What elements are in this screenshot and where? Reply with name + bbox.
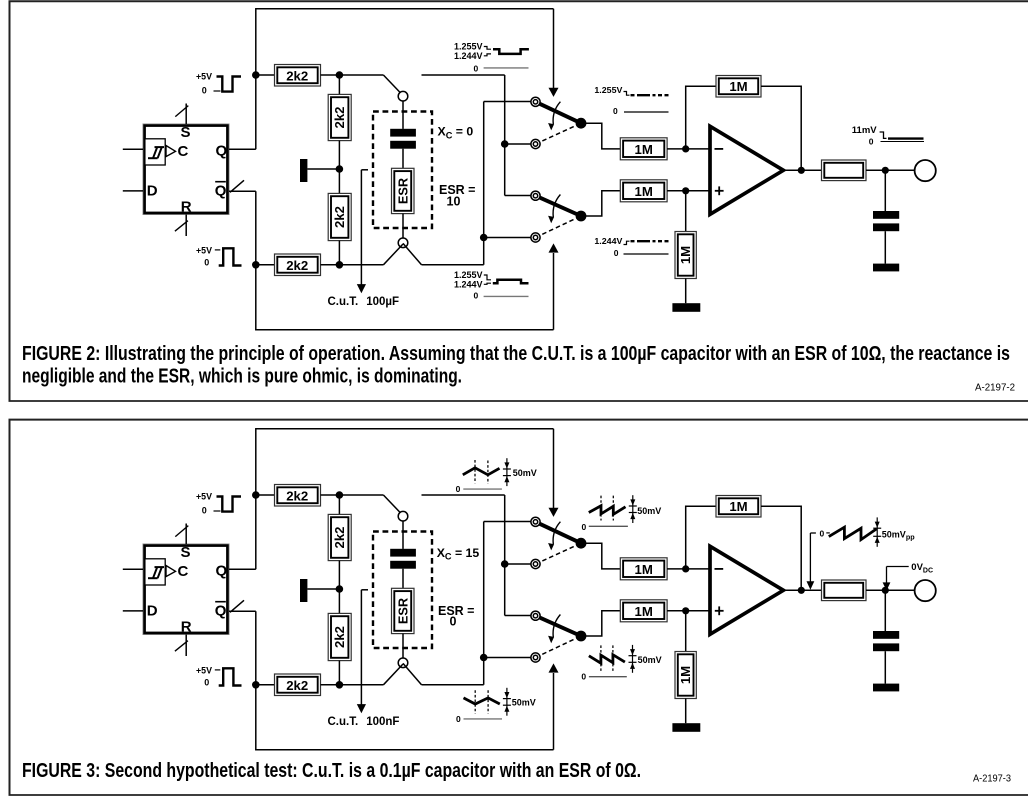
svg-text:R: R — [181, 619, 192, 636]
resistor RG2 1M non-inverting input fig3 — [620, 600, 667, 622]
svg-text:1M: 1M — [635, 562, 653, 577]
switch SW1 motion arc fig2 — [553, 102, 560, 125]
op-amp U2 minus sign fig3 — [715, 568, 724, 570]
wire RG2 to non-inverting node fig3 — [667, 610, 710, 612]
terminal circle bottom of C.u.T. fig2 — [398, 238, 408, 248]
svg-text:1.244V: 1.244V — [454, 279, 483, 289]
switch drive arrow up fig3 — [553, 673, 555, 750]
waveform sawtooth non-inverting fig3 — [589, 655, 625, 664]
wire R1 to node A fig3 — [321, 494, 340, 496]
node M midpoint fig2 — [336, 165, 344, 173]
wire Xc to ESR fig3 — [402, 569, 404, 589]
wire top rail to switches fig3 — [422, 494, 505, 496]
switch SW2 alternate throw dashed fig3 — [536, 636, 582, 658]
C.u.T. leader arrow fig3 — [360, 590, 362, 705]
svg-text:2k2: 2k2 — [286, 68, 308, 83]
reference bar electrode fig2 — [300, 159, 307, 182]
label 0VDC leader fig3 — [886, 567, 888, 584]
wire node M to R3 fig3 — [338, 589, 340, 613]
svg-text:R: R — [181, 199, 192, 216]
svg-text:FIGURE 3: Second hypothetical: FIGURE 3: Second hypothetical test: C.u.… — [22, 760, 641, 782]
resistor R1 2k2 horizontal top fig2 — [275, 65, 321, 87]
flip-flop U1 fig2 (D flip-flop box) — [143, 124, 229, 215]
resistor ESR box fig3 — [392, 588, 415, 633]
wire tap to output capacitor fig2 — [884, 170, 886, 211]
wire rail to R4 fig3 — [256, 684, 275, 686]
wire vertical drive A fig3 — [504, 495, 506, 616]
svg-text:1M: 1M — [678, 246, 693, 264]
svg-text:2k2: 2k2 — [332, 206, 347, 228]
svg-text:50mV: 50mV — [513, 468, 537, 478]
resistor R3 2k2 vertical lower fig3 — [328, 613, 351, 660]
svg-text:0: 0 — [474, 63, 479, 73]
svg-text:1M: 1M — [729, 499, 747, 514]
node A top divider fig2 — [336, 71, 344, 79]
svg-text:0: 0 — [581, 671, 586, 681]
wire node A to R2 fig2 — [338, 75, 340, 94]
svg-text:1.244V: 1.244V — [454, 51, 483, 61]
wire Q rail up fig2 — [255, 8, 257, 149]
wire RO to terminal fig2 — [866, 169, 915, 171]
waveform Qbar square pulse fig2 — [219, 248, 242, 265]
op-amp U2 minus sign fig2 — [715, 148, 724, 150]
node inverting input fig2 — [682, 145, 689, 152]
switch SW2 blade fig3 — [536, 616, 582, 636]
op-amp U2 plus sign fig3 — [715, 610, 724, 612]
wire SW2 pole to RG2 fig2 — [585, 191, 620, 216]
svg-text:11mV: 11mV — [852, 125, 877, 136]
wire drive B corner to SW1 upper contact fig3 — [484, 521, 531, 523]
resistor RG1 1M inverting input fig2 — [620, 138, 667, 160]
resistor RO output series (unlabeled) fig3 — [822, 580, 867, 601]
resistor R1 2k2 horizontal top fig3 — [275, 485, 321, 507]
wire Q output fig3 — [229, 568, 256, 570]
svg-text:FIGURE 2: Illustrating the pri: FIGURE 2: Illustrating the principle of … — [22, 343, 1010, 365]
switch SW2 upper contact fig2 — [531, 191, 540, 200]
wire bottom terminal to node B fig3 — [403, 663, 422, 684]
C.u.T. leader stub fig3 — [361, 589, 368, 591]
resistor R2 2k2 vertical upper fig2 — [328, 94, 351, 140]
wire reference bar to node M fig2 — [307, 168, 339, 170]
wire drive A corner to SW2 upper contact fig3 — [505, 615, 531, 617]
waveform Q square pulse fig3 — [217, 497, 242, 512]
switch SW2 motion arc fig3 — [553, 615, 560, 638]
node M midpoint fig3 — [336, 585, 344, 593]
wire R4 to node B fig2 — [321, 264, 340, 266]
wire feedback left leg fig2 — [686, 86, 716, 149]
switch SW2 pole fig3 — [576, 631, 587, 642]
svg-text:1M: 1M — [635, 184, 653, 199]
capacitor CO plate 2 fig2 — [873, 223, 899, 231]
op-amp U2 plus sign fig2 — [715, 190, 724, 192]
svg-text:D: D — [147, 183, 158, 200]
resistor RG2 1M non-inverting input fig2 — [620, 180, 667, 202]
wire RG1 to inverting node fig2 — [667, 148, 710, 150]
wire bottom rail to switches fig3 — [422, 684, 484, 686]
amplitude arrow inverting fig3 — [632, 495, 634, 523]
hook 1.255V bottom fig2 — [484, 275, 491, 280]
wire feedback right leg fig2 — [761, 86, 801, 170]
Qbar output slash fig3 — [230, 600, 244, 612]
wire Qbar output fig2 — [229, 190, 256, 192]
svg-text:0: 0 — [474, 290, 479, 300]
svg-text:XC = 15: XC = 15 — [437, 546, 480, 562]
switch SW1 lower contact fig3 — [531, 559, 540, 568]
node terminal tap fig2 — [882, 167, 889, 174]
svg-text:0: 0 — [202, 86, 207, 96]
dashed box C.u.T. outline fig3 — [373, 532, 432, 649]
svg-text:2k2: 2k2 — [286, 488, 308, 503]
node inverting input fig3 — [682, 565, 689, 572]
wire op-amp output fig2 — [783, 169, 821, 171]
svg-text:2k2: 2k2 — [286, 258, 308, 273]
dashed box C.u.T. outline fig2 — [373, 112, 432, 229]
U1 R pin no-connect slash fig2 — [175, 221, 188, 232]
svg-text:0: 0 — [456, 484, 461, 494]
svg-text:0: 0 — [613, 106, 618, 116]
svg-text:Q: Q — [216, 563, 228, 580]
wire Qbar rail down fig3 — [255, 611, 257, 750]
switch SW2 blade fig2 — [536, 196, 582, 216]
wire R1 to node A fig2 — [321, 74, 340, 76]
svg-text:A-2197-2: A-2197-2 — [975, 383, 1015, 394]
wire tap to output capacitor fig3 — [884, 590, 886, 631]
wire Q rail up fig3 — [255, 428, 257, 569]
svg-text:1.255V: 1.255V — [594, 85, 622, 95]
switch SW1 lower contact fig2 — [531, 139, 540, 148]
op-amp U2 triangle fig2 — [710, 126, 783, 214]
wire R3 to node B fig3 — [338, 661, 340, 685]
wire feedback right leg fig3 — [761, 506, 801, 590]
waveform cap voltage square bottom fig2 — [493, 280, 529, 283]
svg-text:0: 0 — [204, 257, 209, 267]
wire ESR to bottom terminal fig3 — [402, 634, 404, 658]
wire RO to terminal fig3 — [866, 589, 915, 591]
node output fig3 — [798, 587, 805, 594]
resistor R2 2k2 vertical upper fig3 — [328, 514, 351, 560]
switch SW1 upper contact fig3 — [531, 517, 540, 526]
node B bottom divider fig2 — [336, 261, 344, 269]
wire node A to top terminal fig2 — [339, 74, 383, 76]
resistor R4 2k2 horizontal bottom fig3 — [275, 674, 321, 696]
wire non-inverting node to RB fig2 — [685, 191, 687, 232]
U1 R pin stub (unconnected) fig3 — [185, 635, 187, 657]
node Q rail tap fig2 — [252, 71, 260, 79]
svg-text:100µF: 100µF — [366, 296, 399, 308]
wire drive A corner to SW2 upper contact fig2 — [505, 195, 531, 197]
waveform dash-dot inverting fig2 — [631, 94, 669, 96]
resistor RG1 1M inverting input fig3 — [620, 558, 667, 580]
resistor RO output series (unlabeled) fig2 — [822, 160, 867, 181]
resistor RF 1M feedback fig3 — [716, 496, 761, 518]
svg-text:2k2: 2k2 — [332, 106, 347, 128]
capacitor Xc plate 1 fig3 — [390, 549, 416, 557]
Qbar output slash fig2 — [230, 180, 244, 192]
wire vertical drive B fig2 — [483, 102, 485, 265]
terminal circle top of C.u.T. fig2 — [398, 91, 408, 101]
flip-flop U1 fig3 (D flip-flop box) — [143, 544, 229, 635]
switch drive arrow down fig2 — [553, 9, 555, 89]
wire output capacitor to ground fig3 — [884, 651, 886, 683]
terminal circle bottom of C.u.T. fig3 — [398, 658, 408, 668]
node drive B to SW2 lower contact fig3 — [480, 654, 488, 662]
U1 C input wire fig3 — [123, 568, 143, 570]
svg-text:C: C — [178, 563, 189, 580]
node drive B to SW2 lower contact fig2 — [480, 234, 488, 242]
switch SW1 alternate throw dashed fig2 — [536, 123, 582, 144]
wire reference bar to node M fig3 — [307, 588, 339, 590]
resistor R3 2k2 vertical lower fig2 — [328, 193, 351, 240]
resistor R4 2k2 horizontal bottom fig2 — [275, 254, 321, 276]
svg-text:2k2: 2k2 — [332, 626, 347, 648]
wire rail to R1 fig2 — [256, 74, 275, 76]
wire top drive run fig2 — [255, 8, 553, 10]
op-amp U2 triangle fig3 — [710, 546, 783, 634]
U1 R pin stub (unconnected) fig2 — [185, 215, 187, 237]
wire bottom rail to switches fig2 — [422, 264, 484, 266]
svg-text:0: 0 — [450, 615, 457, 629]
svg-text:+5V: +5V — [196, 245, 213, 256]
wire drive B corner to SW1 upper contact fig2 — [484, 101, 531, 103]
amplitude arrow output fig3 — [876, 517, 878, 546]
svg-text:S: S — [181, 124, 191, 141]
figure 2 panel border — [10, 1, 1028, 401]
wire ESR to bottom terminal fig2 — [402, 214, 404, 238]
resistor RB 1M to ground fig2 — [675, 232, 696, 279]
U1 S pin stub (unconnected) fig3 — [185, 524, 187, 545]
wire node A to R2 fig3 — [338, 495, 340, 514]
wire Xc to ESR fig2 — [402, 149, 404, 169]
switch SW1 upper contact fig2 — [531, 97, 540, 106]
waveform triangle bottom feed fig3 — [464, 698, 500, 704]
ground bar below RB fig3 — [672, 723, 700, 732]
wire node A to top terminal fig3 — [339, 494, 383, 496]
wire SW1 pole to RG1 fig3 — [585, 543, 620, 569]
C.u.T. leader stub fig2 — [361, 169, 368, 171]
U1 schmitt hysteresis box fig2 — [145, 139, 165, 165]
svg-text:1M: 1M — [635, 604, 653, 619]
svg-text:+5V: +5V — [196, 71, 213, 82]
wire RG2 to non-inverting node fig2 — [667, 190, 710, 192]
terminal circle top of C.u.T. fig3 — [398, 511, 408, 521]
switch SW2 pole fig2 — [576, 211, 587, 222]
switch SW2 lower contact fig2 — [531, 233, 540, 242]
svg-text:0: 0 — [456, 714, 461, 724]
node A top divider fig3 — [336, 491, 344, 499]
wire vertical drive A fig2 — [504, 75, 506, 196]
capacitor CO plate 2 fig3 — [873, 643, 899, 651]
svg-text:1.244V: 1.244V — [594, 236, 622, 246]
resistor RF 1M feedback fig2 — [716, 76, 761, 98]
svg-text:2k2: 2k2 — [286, 678, 308, 693]
node non-inverting input fig3 — [682, 607, 689, 614]
capacitor Xc plate 2 fig3 — [390, 561, 416, 569]
U1 schmitt hysteresis box fig3 — [145, 559, 165, 585]
output terminal circle fig3 — [915, 580, 936, 601]
wire RG1 to inverting node fig3 — [667, 568, 710, 570]
U1 C input wire fig2 — [123, 148, 143, 150]
reference bar electrode fig3 — [300, 579, 307, 602]
waveform sawtooth output fig3 — [829, 527, 877, 539]
svg-text:ESR: ESR — [395, 598, 410, 624]
wire node M to R3 fig2 — [338, 169, 340, 193]
wire SW1 pole to RG1 fig2 — [585, 123, 620, 149]
switch SW1 pole fig2 — [576, 118, 587, 129]
capacitor Xc plate 1 fig2 — [390, 129, 416, 137]
ground bar below CO fig2 — [873, 264, 899, 272]
wire non-inverting node to RB fig3 — [685, 611, 687, 652]
waveform output level fig2 — [888, 137, 924, 139]
hook 1.255V top fig2 — [484, 47, 491, 50]
svg-text:XC = 0: XC = 0 — [438, 125, 474, 141]
node Qbar rail tap fig3 — [252, 681, 260, 689]
U1 D input wire fig2 — [123, 190, 143, 192]
wire rail to R1 fig3 — [256, 494, 275, 496]
svg-text:1M: 1M — [729, 79, 747, 94]
svg-text:50mV: 50mV — [637, 506, 661, 516]
ground bar below RB fig2 — [672, 303, 700, 312]
waveform cap voltage square top fig2 — [493, 49, 529, 54]
wire top terminal to Xc fig3 — [402, 521, 404, 549]
switch SW1 blade fig2 — [536, 102, 582, 123]
wire Qbar output fig3 — [229, 610, 256, 612]
U1 S pin no-connect slash fig2 — [175, 106, 188, 117]
figure 3 panel border — [10, 420, 1028, 795]
svg-text:D: D — [147, 603, 158, 620]
node non-inverting input fig2 — [682, 187, 689, 194]
svg-text:0: 0 — [614, 248, 619, 258]
svg-text:0: 0 — [204, 677, 209, 687]
svg-text:1M: 1M — [678, 666, 693, 684]
wire Qbar rail down fig2 — [255, 191, 257, 330]
svg-text:Q: Q — [215, 603, 227, 620]
waveform triangle top feed fig3 — [463, 468, 500, 475]
svg-text:100nF: 100nF — [366, 716, 399, 728]
svg-text:1M: 1M — [635, 142, 653, 157]
wire R4 to node B fig3 — [321, 684, 340, 686]
svg-text:A-2197-3: A-2197-3 — [973, 774, 1011, 785]
wire RB to ground fig3 — [685, 699, 687, 724]
switch SW1 alternate throw dashed fig3 — [536, 543, 582, 564]
U1 clock edge triangle fig3 — [166, 566, 176, 577]
svg-text:negligible and the ESR, which: negligible and the ESR, which is pure oh… — [22, 366, 462, 388]
U1 S pin stub (unconnected) fig2 — [185, 104, 187, 125]
node Q rail tap fig3 — [252, 491, 260, 499]
resistor RB 1M to ground fig3 — [675, 652, 696, 699]
svg-text:0: 0 — [202, 506, 207, 516]
switch SW2 motion arc fig2 — [553, 195, 560, 218]
hook 1.244V top fig2 — [484, 54, 491, 56]
svg-text:C: C — [178, 143, 189, 160]
wire R2 to node M fig3 — [338, 561, 340, 589]
wire rail to R4 fig2 — [256, 264, 275, 266]
capacitor CO plate 1 fig3 — [873, 631, 899, 639]
svg-text:ESR: ESR — [395, 178, 410, 204]
arrow output ripple pointer fig3 — [809, 533, 811, 582]
wire vertical drive B fig3 — [483, 522, 485, 685]
amplitude arrow top feed fig3 — [506, 458, 508, 486]
resistor ESR box fig2 — [392, 168, 415, 213]
waveform dash-dot non-inverting fig2 — [631, 240, 669, 242]
wire bottom terminal to node B fig2 — [403, 243, 422, 264]
U1 D input wire fig3 — [123, 610, 143, 612]
wire R2 to node M fig2 — [338, 141, 340, 169]
wire SW2 pole to RG2 fig3 — [585, 611, 620, 636]
switch SW2 upper contact fig3 — [531, 611, 540, 620]
wire top rail to switches fig2 — [422, 74, 505, 76]
C.u.T. leader arrow fig2 — [360, 170, 362, 285]
svg-text:C.u.T.: C.u.T. — [328, 296, 359, 308]
switch SW1 motion arc fig3 — [553, 522, 560, 545]
node output fig2 — [798, 167, 805, 174]
wire RB to ground fig2 — [685, 279, 687, 304]
wire bottom drive run fig3 — [255, 749, 553, 751]
wire top terminal to Xc fig2 — [402, 101, 404, 129]
wire bottom drive run fig2 — [255, 329, 553, 331]
svg-text:10: 10 — [447, 194, 461, 208]
switch SW2 lower contact fig3 — [531, 653, 540, 662]
output terminal circle fig2 — [915, 160, 936, 181]
switch SW1 blade fig3 — [536, 522, 582, 543]
node B bottom divider fig3 — [336, 681, 344, 689]
wire output capacitor to ground fig2 — [884, 231, 886, 263]
wire Q output fig2 — [229, 148, 256, 150]
svg-text:0: 0 — [582, 522, 587, 532]
wire top drive run fig3 — [255, 428, 553, 430]
U1 clock edge triangle fig2 — [166, 146, 176, 157]
switch SW1 pole fig3 — [576, 538, 587, 549]
svg-text:Q: Q — [216, 143, 228, 160]
svg-text:0: 0 — [869, 136, 874, 146]
svg-text:2k2: 2k2 — [332, 526, 347, 548]
svg-text:50mV: 50mV — [512, 698, 536, 708]
U1 hysteresis symbol fig3 — [148, 577, 158, 579]
wire feedback left leg fig3 — [686, 506, 716, 569]
switch drive arrow up fig2 — [553, 253, 555, 330]
U1 hysteresis symbol fig2 — [148, 157, 158, 159]
waveform Qbar square pulse fig3 — [219, 668, 242, 685]
switch drive arrow down fig3 — [553, 429, 555, 509]
wire R3 to node B fig2 — [338, 241, 340, 265]
node drive A to SW1 lower contact fig2 — [501, 140, 509, 148]
wire op-amp output fig3 — [783, 589, 821, 591]
amplitude arrow non-inverting fig3 — [632, 645, 634, 673]
svg-text:S: S — [181, 544, 191, 561]
capacitor Xc plate 2 fig2 — [390, 141, 416, 149]
waveform Q square pulse fig2 — [217, 77, 242, 92]
switch SW2 alternate throw dashed fig2 — [536, 216, 582, 238]
waveform sawtooth inverting fig3 — [589, 506, 626, 515]
node drive A to SW1 lower contact fig3 — [501, 560, 509, 568]
amplitude arrow bottom feed fig3 — [506, 688, 508, 716]
node terminal tap fig3 — [882, 587, 889, 594]
svg-text:Q: Q — [215, 183, 227, 200]
svg-text:+5V: +5V — [196, 665, 213, 676]
svg-text:50mV: 50mV — [638, 655, 662, 665]
svg-text:0: 0 — [820, 529, 825, 539]
svg-text:+5V: +5V — [196, 491, 213, 502]
hook 1.244V bottom fig2 — [484, 283, 491, 284]
U1 S pin no-connect slash fig3 — [175, 526, 188, 537]
U1 R pin no-connect slash fig3 — [175, 641, 188, 652]
ground bar below CO fig3 — [873, 684, 899, 692]
svg-text:C.u.T.: C.u.T. — [328, 716, 359, 728]
node Qbar rail tap fig2 — [252, 261, 260, 269]
capacitor CO plate 1 fig2 — [873, 211, 899, 219]
